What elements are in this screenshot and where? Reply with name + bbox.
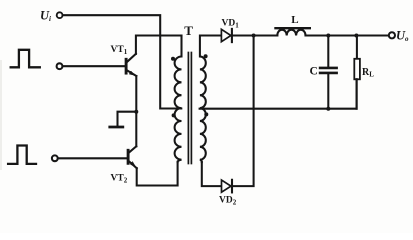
svg-text:VD1: VD1 — [222, 19, 240, 30]
wire secondary bottom to VD2 — [202, 162, 222, 186]
polarity dot secondary top — [204, 54, 208, 58]
wire VD1 cathode to inductor — [233, 34, 277, 36]
svg-text:RL: RL — [362, 67, 374, 79]
polarity dot secondary bottom — [204, 112, 208, 116]
junction node rectifier output — [252, 34, 256, 38]
pulse symbol 1 — [11, 50, 40, 68]
polarity dot primary top — [171, 57, 175, 61]
wire collector VT1 to primary top — [136, 36, 182, 54]
input terminal base 1 — [57, 63, 63, 69]
transistor VT2 — [128, 146, 137, 168]
wire bottom rail secondary center tap — [200, 79, 357, 108]
svg-text:L: L — [291, 14, 298, 26]
junction node C top — [326, 34, 330, 38]
wire emitter VT2 to primary bottom — [137, 162, 178, 186]
svg-text:VT1: VT1 — [111, 45, 128, 56]
transformer T secondary winding — [200, 36, 222, 163]
junction node C bottom — [326, 107, 330, 111]
svg-text:T: T — [184, 23, 193, 38]
wire top rail from Ui to primary center tap — [63, 15, 182, 108]
junction node RL top — [354, 34, 358, 38]
wire emitter VT1 down to collector VT2 — [135, 76, 137, 146]
inductor L — [276, 28, 310, 35]
transformer T primary winding — [175, 36, 182, 163]
diode VD1 — [221, 29, 232, 42]
capacitor C — [320, 36, 337, 109]
transistor VT1 — [126, 54, 136, 76]
transformer core — [188, 53, 191, 164]
wire rectifier junction down to VD2 cathode — [233, 36, 254, 187]
svg-text:C: C — [310, 66, 318, 78]
svg-text:Ui: Ui — [40, 9, 51, 24]
wire to ground — [118, 112, 137, 126]
polarity dot primary bottom — [172, 113, 176, 117]
input terminal Ui — [57, 12, 63, 18]
input terminal base 2 — [52, 155, 58, 161]
wire base VT1 — [63, 65, 126, 67]
ground — [110, 126, 123, 129]
diode VD2 — [222, 180, 233, 193]
output terminal Uo — [389, 32, 395, 38]
wire inductor to output — [306, 34, 389, 36]
svg-text:VT2: VT2 — [111, 174, 128, 185]
wire base VT2 — [58, 157, 128, 159]
svg-text:Uo: Uo — [396, 28, 409, 43]
junction node ground tap — [134, 110, 138, 114]
resistor RL — [354, 36, 360, 109]
svg-text:VD2: VD2 — [219, 196, 237, 207]
pulse symbol 2 — [8, 146, 36, 164]
